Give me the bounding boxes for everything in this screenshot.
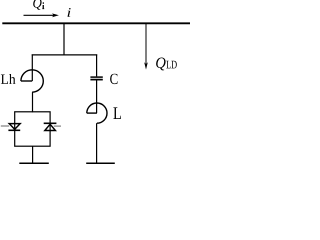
label node i xyxy=(68,8,71,17)
thyristor V1 (left, conducting downward) xyxy=(1,124,20,131)
label Qi xyxy=(33,0,44,10)
label QLD xyxy=(156,58,177,71)
arrow Qi (injected reactive power flow) xyxy=(24,13,59,17)
wire: horizontal tie line xyxy=(32,54,98,56)
wire: left branch lead into reactor xyxy=(31,54,33,81)
label C xyxy=(110,74,117,84)
wire: inductor L to ground xyxy=(96,123,98,163)
label Lh xyxy=(1,74,16,84)
ground (middle branch) xyxy=(86,163,115,165)
inductor L (reactor symbol) xyxy=(87,103,107,123)
thyristor V2 (right, conducting upward) xyxy=(44,123,61,130)
label L xyxy=(113,107,121,119)
capacitor C xyxy=(90,77,102,80)
inductor Lh (reactor symbol) xyxy=(21,70,43,92)
ground (left branch) xyxy=(19,163,49,165)
wire: middle branch lead to capacitor xyxy=(96,54,98,76)
wire: thyristor pair frame xyxy=(15,112,50,146)
wire: bus line (node i) xyxy=(2,22,190,24)
wire: capacitor to inductor L xyxy=(96,80,98,114)
wire: box to ground xyxy=(32,146,34,163)
wire: reactor to thyristor box xyxy=(32,92,34,112)
arrow QLD (load reactive power) xyxy=(144,23,148,69)
wire: drop from bus to tie xyxy=(63,23,65,55)
